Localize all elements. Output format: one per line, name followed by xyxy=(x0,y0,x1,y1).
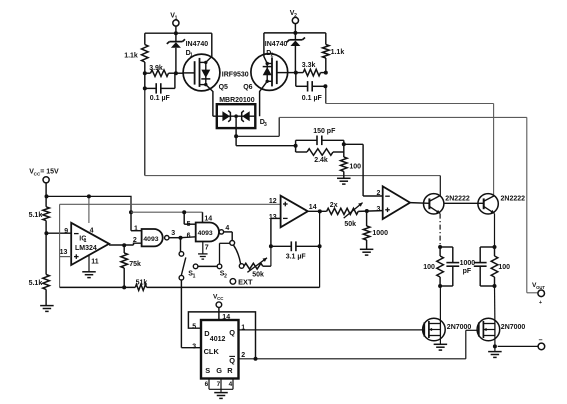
svg-text:3.9k: 3.9k xyxy=(149,65,163,72)
svg-text:S: S xyxy=(205,366,210,375)
integrator pin13 wire xyxy=(271,217,281,219)
LM324 pin13 input stub xyxy=(60,256,72,258)
resistor R 100 (left RC) xyxy=(439,247,441,256)
resistor R 100 to ground xyxy=(341,157,348,171)
svg-text:100: 100 xyxy=(423,264,435,271)
gate2 pin6 wire xyxy=(181,236,196,239)
wire top rail right circuit xyxy=(264,32,326,34)
svg-text:6: 6 xyxy=(187,233,191,240)
Q1 emitter dash-dot wire xyxy=(439,214,441,247)
gate1 pin1 wire xyxy=(130,212,132,231)
op-amp IC1 LM324 xyxy=(71,223,109,265)
svg-text:5.1k: 5.1k xyxy=(29,212,43,219)
VCC rail xyxy=(47,196,132,212)
switch S2 xyxy=(230,241,235,246)
svg-text:4: 4 xyxy=(90,228,94,235)
potentiometer 50k (period adjust) xyxy=(244,263,263,269)
flip-flop 4012 xyxy=(201,320,239,379)
long wire pin13/pin12 net xyxy=(60,203,281,205)
resistor R 1.1k left xyxy=(142,45,149,62)
svg-text:7: 7 xyxy=(205,245,209,252)
D to Qbar loop wire xyxy=(188,312,255,359)
svg-text:51k: 51k xyxy=(136,279,148,286)
svg-text:IN4740: IN4740 xyxy=(186,41,209,48)
svg-text:OUT: OUT xyxy=(536,285,545,290)
wire D3 node right then up to long wire xyxy=(236,135,279,137)
Q2 collector wire xyxy=(493,194,495,196)
integrator output node xyxy=(308,210,327,212)
Q4 source node xyxy=(494,336,496,347)
LM324 pin11 ground xyxy=(88,255,90,272)
Q2 emitter wire xyxy=(494,214,496,247)
svg-text:2: 2 xyxy=(294,13,297,19)
terminal EXT xyxy=(230,279,236,285)
svg-text:Q: Q xyxy=(229,356,235,365)
svg-text:4093: 4093 xyxy=(198,230,213,237)
svg-text:4: 4 xyxy=(225,225,229,232)
NAND gate 4093 #1 xyxy=(142,229,163,246)
wire to pin 9 xyxy=(46,232,71,234)
capacitor C (right RC) xyxy=(480,246,494,248)
svg-text:14: 14 xyxy=(222,314,230,321)
wire gate node down-long to collector wire Q1 xyxy=(144,88,146,175)
terminal VCC (4012) xyxy=(216,302,222,308)
svg-text:LM324: LM324 xyxy=(75,245,97,252)
svg-text:50k: 50k xyxy=(344,221,356,228)
resistor R 5.1k upper xyxy=(45,196,47,206)
svg-text:CC: CC xyxy=(217,296,224,301)
svg-text:2x: 2x xyxy=(330,202,338,209)
node A to cap xyxy=(144,73,146,88)
svg-text:2N2222: 2N2222 xyxy=(445,196,470,203)
terminal output minus xyxy=(538,343,545,350)
svg-text:3: 3 xyxy=(171,230,175,237)
svg-text:0.1 µF: 0.1 µF xyxy=(150,95,171,102)
svg-text:pF: pF xyxy=(463,268,472,275)
resistor R 75k xyxy=(123,245,125,253)
zener diode D1 IN4740 xyxy=(175,33,177,42)
svg-text:+: + xyxy=(539,300,542,306)
svg-text:2N7000: 2N7000 xyxy=(501,324,526,331)
wire S1 to CLK xyxy=(180,280,182,348)
Q3 drain wire xyxy=(439,286,441,324)
svg-text:MBR20100: MBR20100 xyxy=(219,97,255,104)
svg-text:50k: 50k xyxy=(252,272,264,279)
Q4 drain wire xyxy=(494,286,496,324)
svg-text:100: 100 xyxy=(498,264,510,271)
terminal V2 xyxy=(292,17,298,23)
svg-text:1.1k: 1.1k xyxy=(331,49,345,56)
ground below 5.1k xyxy=(45,289,47,305)
Q4 source ground xyxy=(494,346,496,351)
resistor R 100 (right RC) xyxy=(494,247,496,256)
wire S1 contact to S2 xyxy=(198,265,217,267)
MOSFET Q3 2N7000 xyxy=(423,318,446,341)
wire 3.3k to gate node xyxy=(288,72,303,74)
svg-text:1000: 1000 xyxy=(460,260,476,267)
resistor R 3.3k xyxy=(303,69,320,76)
wire V1 to node xyxy=(175,26,177,33)
gate2 output to S2 xyxy=(224,231,233,233)
svg-text:2N2222: 2N2222 xyxy=(501,196,526,203)
svg-text:12: 12 xyxy=(269,198,277,205)
capacitor C 1000pF (left RC) xyxy=(440,246,453,248)
capacitor C 150pF xyxy=(296,139,317,141)
long feedback wire to + input (vertical) xyxy=(59,204,61,287)
svg-text:5: 5 xyxy=(192,324,196,331)
wire VCC to rail xyxy=(45,183,47,197)
node RC1 top xyxy=(438,245,442,249)
svg-text:–: – xyxy=(539,337,543,344)
zener diode D2 IN4740 xyxy=(294,33,296,40)
resistor R 2.4k xyxy=(296,151,307,153)
terminal Vout xyxy=(538,290,545,297)
svg-text:2: 2 xyxy=(133,237,137,244)
Qbar output wire to Q4 gate xyxy=(239,358,466,360)
svg-text:11: 11 xyxy=(91,259,99,266)
wire pin4 to rail xyxy=(88,196,90,223)
wire to Vout terminal xyxy=(527,292,538,294)
wire top rail left circuit xyxy=(145,32,212,34)
svg-text:13: 13 xyxy=(60,249,68,256)
p-channel MOSFET Q6 xyxy=(251,54,288,91)
Q1 collector wire xyxy=(439,176,441,196)
switch S1 xyxy=(179,252,184,257)
svg-text:9: 9 xyxy=(64,228,68,235)
svg-text:150 pF: 150 pF xyxy=(313,128,336,135)
transistor Q1 2N2222 xyxy=(424,194,444,214)
svg-text:75k: 75k xyxy=(129,261,141,268)
capacitor C 0.1uF left xyxy=(145,87,156,89)
svg-text:2: 2 xyxy=(241,352,245,359)
node RC1 bottom xyxy=(438,284,442,288)
svg-text:1: 1 xyxy=(193,273,196,279)
svg-text:R: R xyxy=(227,366,233,375)
transistor Q2 2N2222 xyxy=(478,194,498,214)
wire 3.9k to gate node xyxy=(169,72,184,74)
node network right xyxy=(343,140,345,157)
svg-text:7: 7 xyxy=(217,381,221,388)
svg-text:1000: 1000 xyxy=(372,230,388,237)
p-channel MOSFET Q5 IRF9530 xyxy=(183,54,220,91)
svg-text:2.4k: 2.4k xyxy=(314,157,328,164)
4012 S G R pins to ground xyxy=(208,379,210,390)
svg-text:4012: 4012 xyxy=(210,336,226,343)
svg-text:CLK: CLK xyxy=(204,347,220,356)
gate2 pin7 ground xyxy=(202,242,204,254)
wire right branch down to 1.1k xyxy=(325,33,327,45)
wire osc node down to S1 xyxy=(180,238,182,252)
svg-text:EXT: EXT xyxy=(238,277,253,286)
svg-text:Q: Q xyxy=(229,328,235,337)
resistor R 1000 xyxy=(366,211,368,226)
svg-text:Q5: Q5 xyxy=(219,84,228,91)
Q output wire to Q3 gate xyxy=(239,329,425,331)
wire pot up to integrator - input node xyxy=(270,246,272,266)
ground of 1000 xyxy=(366,240,368,249)
LM324 output wire xyxy=(109,244,133,246)
NAND gate 4093 #2 xyxy=(196,223,219,242)
gate2 pin14 stub xyxy=(202,212,204,222)
comparator output wire xyxy=(410,202,429,205)
wire V2 to node xyxy=(294,24,296,33)
node network left xyxy=(294,144,298,148)
resistor R 1.1k right xyxy=(323,45,330,59)
svg-text:1: 1 xyxy=(84,238,87,244)
resistor R 3.9k xyxy=(145,72,151,74)
terminal V1 xyxy=(173,20,179,26)
svg-text:14: 14 xyxy=(204,215,212,222)
svg-text:6: 6 xyxy=(205,381,209,388)
resistor R 51k xyxy=(135,284,146,290)
svg-text:13: 13 xyxy=(269,214,277,221)
capacitor C 0.1uF right xyxy=(295,73,297,87)
op-amp comparator A3 xyxy=(383,186,410,219)
svg-text:1: 1 xyxy=(175,15,178,21)
wire network to comparator pin2 xyxy=(344,143,363,145)
grey net VCC to gates xyxy=(131,211,203,213)
wire D3 center tap to node xyxy=(235,116,237,136)
svg-text:Q6: Q6 xyxy=(243,84,252,91)
node RC2 bottom xyxy=(493,284,497,288)
wire left branch down to 1.1k xyxy=(144,33,146,44)
dual schottky diode D3 MBR20100 xyxy=(217,104,256,128)
svg-text:3: 3 xyxy=(192,343,196,350)
svg-text:14: 14 xyxy=(309,204,317,211)
base wire to Q2 xyxy=(444,202,484,204)
wire to minus terminal xyxy=(498,345,538,347)
resistor R 5.1k lower xyxy=(43,275,50,290)
op-amp integrator A2 xyxy=(281,196,308,228)
svg-text:2: 2 xyxy=(377,190,381,197)
node RC2 top xyxy=(493,245,497,249)
wire cap node down to long wire to Q2 collector xyxy=(325,86,327,103)
wire output to cap node xyxy=(319,211,321,246)
svg-text:= 15V: = 15V xyxy=(40,169,59,176)
capacitor C 3.1uF xyxy=(271,245,291,247)
bottom feedback wire xyxy=(60,286,136,288)
MOSFET Q4 2N7000 xyxy=(477,318,500,341)
wire 1.1k to 3.3k node xyxy=(325,58,327,73)
svg-text:4093: 4093 xyxy=(143,236,158,243)
svg-text:1.1k: 1.1k xyxy=(124,53,138,60)
svg-text:3: 3 xyxy=(377,206,381,213)
svg-text:2: 2 xyxy=(224,273,227,279)
svg-text:3: 3 xyxy=(264,122,267,128)
Q3 source to ground xyxy=(439,336,441,345)
VCC stub to chip xyxy=(218,308,220,321)
svg-text:4: 4 xyxy=(229,381,233,388)
terminal VCC 15V xyxy=(43,177,49,183)
wire 1.1k to node A xyxy=(144,62,146,73)
svg-text:5.1k: 5.1k xyxy=(29,280,43,287)
svg-text:IRF9530: IRF9530 xyxy=(222,72,249,79)
potentiometer 2x 50k xyxy=(327,208,359,214)
wire D3 node down to RC network xyxy=(235,136,237,145)
svg-text:IN4740: IN4740 xyxy=(265,41,288,48)
node comparator + xyxy=(358,210,383,213)
svg-text:0.1 µF: 0.1 µF xyxy=(302,95,323,102)
svg-text:3.3k: 3.3k xyxy=(302,62,316,69)
node pin9 xyxy=(45,221,47,275)
svg-text:3.1 µF: 3.1 µF xyxy=(286,254,307,261)
gate2 pin5 wire xyxy=(183,212,185,224)
svg-text:100: 100 xyxy=(349,164,361,171)
gate1 output wire xyxy=(169,237,181,239)
ground of R100 xyxy=(343,171,345,178)
svg-text:G: G xyxy=(216,366,222,375)
